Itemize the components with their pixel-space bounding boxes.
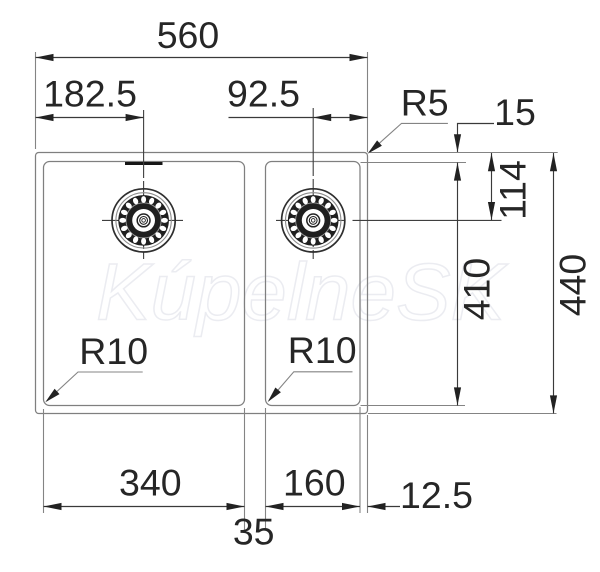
svg-text:35: 35 bbox=[233, 510, 275, 552]
svg-text:160: 160 bbox=[283, 461, 346, 503]
arrow 560 left bbox=[36, 54, 54, 61]
dim 114 line bbox=[491, 153, 493, 220]
extension lines gray bbox=[36, 52, 558, 530]
ext top edge to 440 dim bbox=[370, 152, 558, 154]
svg-text:KúpelneSK: KúpelneSK bbox=[96, 248, 508, 338]
svg-text:114: 114 bbox=[492, 160, 534, 220]
ext below x43.3 bbox=[43, 409, 45, 513]
svg-text:440: 440 bbox=[552, 254, 594, 317]
dimension lines dark bbox=[36, 58, 554, 507]
leader R5 bbox=[369, 123, 448, 152]
arrow 182.5 left bbox=[36, 114, 54, 121]
overflow slot bowl1 bbox=[125, 162, 163, 165]
dim 182.5 line bbox=[36, 117, 144, 119]
svg-text:15: 15 bbox=[494, 91, 536, 133]
ext below x367.5 bbox=[367, 415, 369, 513]
arrow 160 right bbox=[342, 503, 360, 510]
arrow 114 down bbox=[488, 202, 495, 220]
arrow 92.5 left bbox=[313, 114, 331, 121]
arrow 560 right bbox=[350, 54, 368, 61]
drain 1 bbox=[112, 189, 175, 252]
sink outer contour 560x440 bbox=[36, 153, 368, 414]
svg-text:R10: R10 bbox=[288, 329, 357, 371]
centerline bowl2 vertical bbox=[312, 108, 314, 259]
svg-text:182.5: 182.5 bbox=[43, 73, 137, 115]
bowl 2 (small 160x410) bbox=[266, 162, 361, 406]
dim 340 line bbox=[44, 506, 245, 508]
svg-text:410: 410 bbox=[456, 258, 498, 321]
dim 12.5 leader bbox=[368, 506, 401, 508]
arrow 440 up bbox=[550, 153, 557, 171]
ext outer bottom right bbox=[368, 413, 557, 415]
arrow 340 right bbox=[227, 503, 245, 510]
leader R10 bowl2 bbox=[269, 372, 352, 401]
ext left x36 bbox=[35, 52, 37, 149]
leader R10 bowl1 bbox=[47, 372, 143, 401]
arrow 15 up bbox=[454, 163, 461, 181]
svg-text:12.5: 12.5 bbox=[400, 474, 473, 516]
svg-text:92.5: 92.5 bbox=[227, 73, 300, 115]
dim 15 leader bbox=[458, 124, 495, 153]
ext below x360.1 bbox=[359, 407, 361, 513]
dim 560 line bbox=[36, 57, 368, 59]
bowl 1 (large 340x410) bbox=[44, 162, 245, 406]
svg-text:R10: R10 bbox=[79, 330, 148, 372]
arrowheads bbox=[36, 54, 558, 510]
arrow 440 down bbox=[550, 395, 557, 413]
svg-text:340: 340 bbox=[119, 461, 182, 503]
arrow 410 down bbox=[454, 387, 461, 405]
dim 92.5 line bbox=[229, 117, 368, 119]
arrow 12.5 bbox=[368, 503, 386, 510]
drain 2 bbox=[282, 189, 345, 252]
arrow 182.5 right bbox=[126, 114, 144, 121]
arrow R5 leader bbox=[368, 140, 382, 153]
centerline bowl1 vertical bbox=[143, 110, 145, 259]
extension line drain2 center to 114 dim bbox=[353, 219, 502, 221]
arrow 92.5 right bbox=[350, 114, 368, 121]
svg-text:R5: R5 bbox=[401, 81, 449, 123]
arrow 15 down bbox=[454, 134, 461, 152]
ext below x244.7 bbox=[244, 408, 246, 530]
ext bowl top to 15/410 dim bbox=[361, 162, 467, 164]
svg-text:560: 560 bbox=[157, 14, 220, 56]
centerline bowl1 horizontal bbox=[102, 219, 183, 221]
dim 440 line bbox=[553, 153, 555, 414]
dim 410 line bbox=[457, 163, 459, 406]
arrow 160 left bbox=[266, 503, 284, 510]
ext right x367.5 top bbox=[367, 52, 369, 152]
centerline bowl2 horizontal + 114 extension bbox=[276, 219, 345, 221]
arrow 114 up bbox=[488, 153, 495, 171]
ext below x265.4 bbox=[265, 408, 267, 530]
ext bowl bottom right bbox=[361, 405, 466, 407]
arrow R10 leader bowl2 bbox=[268, 388, 281, 403]
arrow R10 leader bowl1 bbox=[45, 389, 59, 403]
arrow 340 left bbox=[44, 503, 62, 510]
dim 160 line bbox=[266, 506, 361, 508]
